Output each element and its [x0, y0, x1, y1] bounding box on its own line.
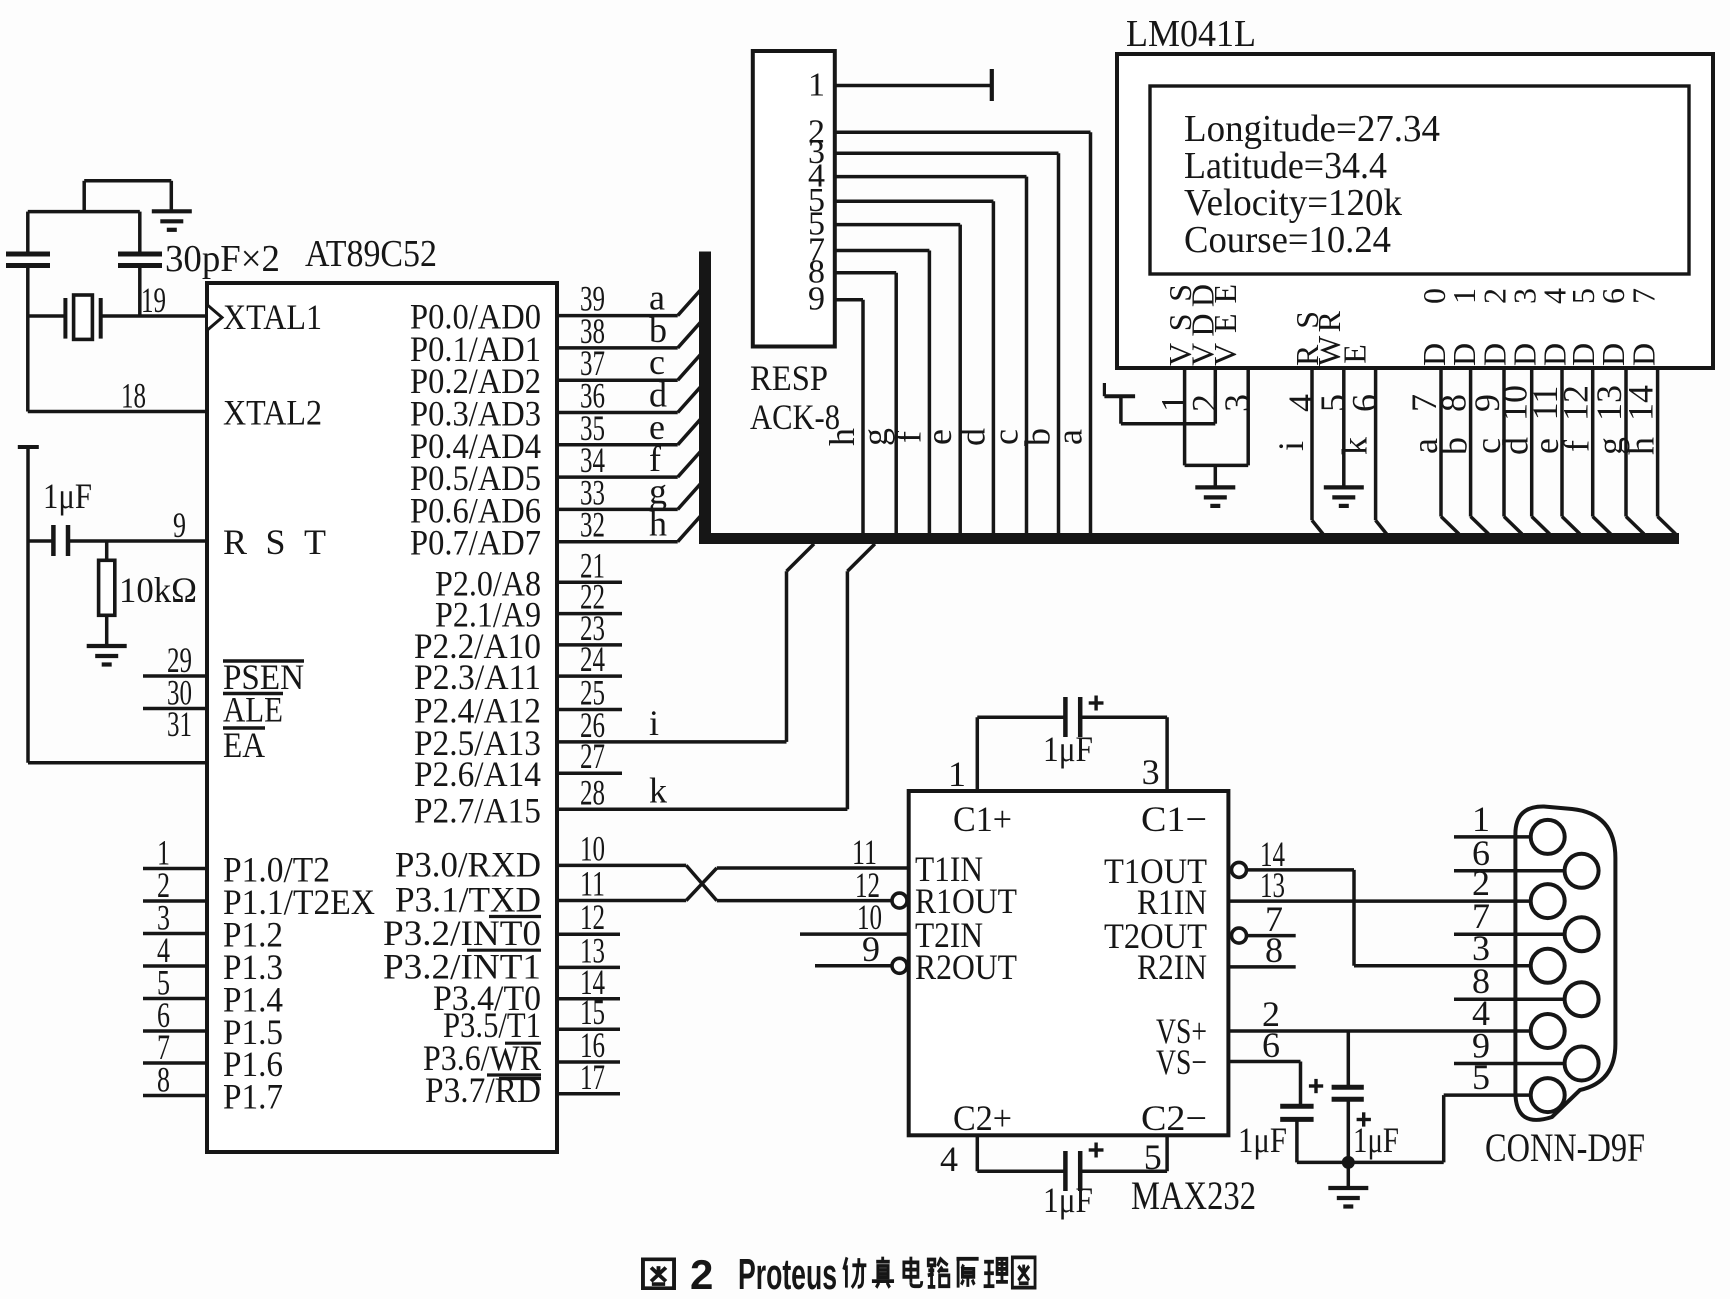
wire LCD data pin to bus [1624, 368, 1628, 517]
svg-text:10: 10 [580, 828, 605, 868]
svg-text:k: k [1335, 437, 1375, 455]
MAX232 T2OUT bubble + stub [1232, 928, 1247, 943]
svg-text:C2+: C2+ [953, 1098, 1012, 1138]
wire bottom rail [1297, 1161, 1444, 1165]
MAX232 R1OUT bubble [892, 893, 907, 908]
wire T2IN stub pin10 [800, 932, 909, 936]
wire crystal to XTAL1 [101, 314, 207, 318]
svg-text:9: 9 [862, 929, 880, 969]
svg-text:1μF: 1μF [43, 476, 92, 516]
svg-text:RST: RST [223, 522, 326, 562]
wire VDD pin2 [1214, 368, 1218, 424]
svg-text:C2−: C2− [1141, 1098, 1207, 1138]
wire bracket to ground [82, 181, 86, 212]
capacitor C6 1uF [1347, 1031, 1351, 1087]
svg-text:18: 18 [121, 376, 146, 416]
wire VS- [1228, 1060, 1300, 1064]
capacitor 30pF right [138, 212, 142, 254]
resistor 10k [105, 541, 109, 560]
svg-text:9: 9 [173, 505, 186, 545]
svg-text:i: i [1271, 441, 1311, 451]
svg-text:27: 27 [580, 736, 605, 776]
ground (crystal) [152, 209, 192, 213]
wire crossover P3.0/P3.1 to MAX232 [557, 864, 686, 868]
connector RESP ACK-8 box [753, 51, 835, 347]
svg-text:P2.7/A15: P2.7/A15 [414, 790, 541, 830]
D9 pin 7 [1454, 932, 1582, 936]
underline WR [487, 1073, 541, 1076]
D9 pin 4 [1516, 1029, 1548, 1033]
wire R2IN stub [1228, 965, 1295, 969]
D9 pin 8 circle [1565, 982, 1599, 1016]
wire EA [28, 761, 207, 765]
svg-text:1μF: 1μF [1353, 1120, 1399, 1160]
svg-text:MAX232: MAX232 [1131, 1173, 1256, 1218]
svg-text:VEE: VEE [1207, 284, 1243, 366]
LCD display inner box [1150, 86, 1689, 274]
bus vertical thick segment [699, 252, 711, 545]
svg-text:EA: EA [223, 725, 265, 765]
svg-text:1: 1 [948, 754, 966, 794]
svg-text:h: h [649, 504, 667, 544]
svg-text:XTAL2: XTAL2 [223, 393, 322, 433]
wire LCD data pin to bus [1656, 368, 1660, 517]
ground (MAX232 caps) [1347, 1162, 1351, 1188]
D9 pin 1 circle [1531, 820, 1565, 854]
D9 pin 7 circle [1565, 917, 1599, 951]
ground (LCD VEE) [1195, 485, 1235, 489]
svg-text:ALE: ALE [223, 690, 283, 730]
D9 pin 1 [1454, 835, 1548, 839]
wire LCD data pin to bus [1439, 368, 1443, 517]
D9 pin 3 circle [1531, 949, 1565, 983]
svg-text:Latitude=34.4: Latitude=34.4 [1184, 145, 1387, 187]
svg-text:8: 8 [1265, 930, 1283, 970]
wire bus to P2.5 (i) [787, 544, 815, 571]
svg-text:VS−: VS− [1156, 1042, 1207, 1082]
D9 pin 9 circle [1565, 1047, 1599, 1081]
svg-text:3: 3 [1217, 394, 1257, 412]
capacitor C4 1uF (C2 pump) [976, 1135, 980, 1171]
svg-text:6: 6 [1345, 394, 1385, 412]
wire VS+ to D9 pin4 [1228, 1029, 1515, 1033]
wire power rail to terminal [1121, 422, 1215, 426]
svg-text:30pF×2: 30pF×2 [165, 238, 280, 280]
svg-text:CONN-D9F: CONN-D9F [1485, 1125, 1645, 1170]
svg-text:P2.6/A14: P2.6/A14 [414, 754, 541, 794]
svg-text:1μF: 1μF [1043, 1180, 1093, 1220]
D9 pin 6 [1454, 869, 1582, 873]
power terminal bar (LCD) [1104, 394, 1135, 398]
svg-text:k: k [649, 770, 667, 810]
svg-text:R2OUT: R2OUT [915, 947, 1017, 987]
capacitor 1uF (reset) [28, 539, 53, 543]
wire VEE pin3 [1246, 368, 1250, 465]
wire LCD data pin to bus [1560, 368, 1564, 517]
wire R2OUT stub pin9 [815, 964, 892, 968]
svg-text:5: 5 [1144, 1137, 1162, 1177]
MAX232 T1OUT bubble + wire to D9 pin3 [1232, 862, 1247, 877]
capacitor 30pF left [26, 212, 30, 254]
svg-text:P3.0/RXD: P3.0/RXD [395, 844, 541, 884]
svg-text:28: 28 [580, 772, 605, 812]
svg-text:AT89C52: AT89C52 [305, 233, 437, 275]
svg-text:C1+: C1+ [953, 799, 1012, 839]
plus sign [1357, 1118, 1371, 1121]
svg-text:19: 19 [141, 280, 166, 320]
wire VSS pin1 [1183, 368, 1187, 465]
overbar RD [499, 1077, 541, 1080]
wire LCD data pin to bus [1469, 368, 1473, 517]
svg-text:P0.7/AD7: P0.7/AD7 [410, 523, 541, 563]
power terminal (reset) [18, 445, 39, 449]
svg-text:Course=10.24: Course=10.24 [1184, 219, 1391, 261]
D9 pin 2 [1516, 899, 1548, 903]
underline TXD [489, 915, 541, 918]
plus sign [1309, 1084, 1323, 1087]
wire vertical reset rail [26, 447, 30, 763]
D9 pin 8 [1454, 997, 1582, 1001]
D9 pin 2 circle [1531, 884, 1565, 918]
svg-text:i: i [649, 703, 659, 743]
capacitor C3 1uF (C1 pump) [976, 717, 980, 791]
svg-text:1μF: 1μF [1238, 1120, 1287, 1160]
plus sign [1089, 1148, 1104, 1151]
bus horizontal thick segment [699, 533, 1679, 544]
caption text [643, 1259, 674, 1288]
svg-text:10kΩ: 10kΩ [119, 570, 197, 610]
XTAL1 clock input triangle [208, 306, 222, 330]
crystal X1 [28, 314, 66, 318]
wire XTAL2 from left branch [28, 410, 207, 414]
open terminal bar [990, 69, 994, 101]
svg-text:E: E [1337, 344, 1373, 364]
wire top rail of crystal caps [28, 210, 140, 214]
svg-text:R2IN: R2IN [1137, 947, 1207, 987]
wire rail to D9 pin5 [1442, 1095, 1446, 1162]
wire LCD data pin to bus [1530, 368, 1534, 517]
D9 pin 5 circle [1531, 1078, 1565, 1112]
svg-text:5: 5 [1472, 1057, 1490, 1097]
svg-text:32: 32 [580, 505, 605, 545]
D9 pin 5 [1516, 1093, 1548, 1097]
svg-text:17: 17 [580, 1057, 605, 1097]
wire RS pin4 to bus [1310, 368, 1314, 520]
wire stubs P1 and PSEN/ALE [143, 674, 207, 678]
svg-text:6: 6 [1262, 1025, 1280, 1065]
wire bus to P2.7 (k) [847, 544, 875, 571]
svg-text:8: 8 [157, 1060, 170, 1100]
underline INT0 [467, 949, 541, 952]
IC U2 MAX232 box [909, 791, 1229, 1135]
svg-text:1: 1 [808, 67, 825, 104]
D9 pin 4 circle [1531, 1014, 1565, 1048]
svg-text:C1−: C1− [1141, 799, 1207, 839]
wire LCD data pin to bus [1502, 368, 1506, 517]
svg-text:3: 3 [1142, 752, 1160, 792]
svg-text:2: 2 [690, 1251, 713, 1298]
svg-text:XTAL1: XTAL1 [223, 297, 322, 337]
svg-text:Longitude=27.34: Longitude=27.34 [1184, 108, 1440, 150]
wire E pin6 to bus [1374, 368, 1378, 520]
IC U1 AT89C52 microcontroller box [207, 283, 557, 1152]
capacitor C5 1uF [1280, 1104, 1313, 1109]
svg-text:Proteus: Proteus [738, 1250, 837, 1299]
wire LCD data pin to bus [1591, 368, 1595, 517]
D9 pin 6 circle [1565, 854, 1599, 888]
wire R1IN to D9 pin2 [1228, 899, 1515, 903]
wire VSS-VEE bottom rail [1185, 464, 1249, 468]
wire WR pin5 to ground [1342, 368, 1346, 487]
ground (reset resistor) [87, 644, 127, 648]
plus sign [1089, 701, 1104, 704]
svg-text:1μF: 1μF [1043, 729, 1093, 769]
svg-text:P1.7: P1.7 [223, 1077, 283, 1117]
junction dot [1342, 1156, 1355, 1169]
svg-text:4: 4 [940, 1139, 958, 1179]
svg-text:Velocity=120k: Velocity=120k [1184, 182, 1402, 224]
connector J2 CONN-D9F shell [1515, 806, 1615, 1119]
MAX232 R2OUT bubble [892, 958, 907, 973]
svg-text:LM041L: LM041L [1126, 13, 1256, 55]
D9 pin 3 [1516, 964, 1548, 968]
D9 pin 9 [1454, 1062, 1582, 1066]
svg-text:a: a [1050, 429, 1090, 445]
LCD LM041L outer box [1117, 54, 1713, 368]
svg-text:RESP: RESP [750, 358, 828, 398]
svg-text:9: 9 [808, 281, 825, 318]
underline T1 [505, 1042, 541, 1045]
ground (LCD WR) [1324, 485, 1364, 489]
